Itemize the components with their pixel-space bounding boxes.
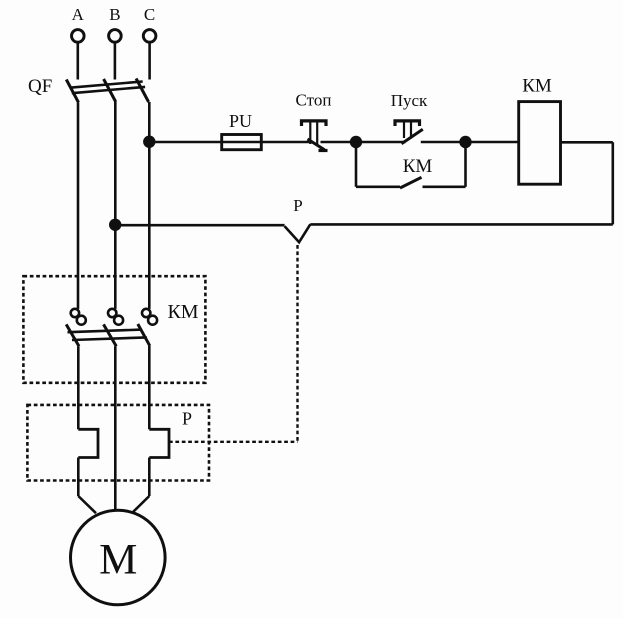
- contactor KM pole B blade: [104, 324, 117, 346]
- wire control line from C to stop button: [149, 141, 310, 144]
- svg-text:Стоп: Стоп: [296, 91, 332, 110]
- wire phase A KM contact to heater: [77, 346, 80, 429]
- wire aux branch bottom left: [356, 186, 400, 189]
- wire junction to start button: [356, 141, 406, 144]
- wire phase A heater to motor: [77, 458, 80, 497]
- wire aux branch bottom right: [423, 186, 466, 189]
- wire aux branch right rise: [464, 142, 467, 187]
- wire phase A terminal to QF: [77, 42, 80, 79]
- wire phase C slant to motor: [132, 496, 150, 513]
- pushbutton Start NO blade: [402, 129, 423, 144]
- contactor KM linkage bar top: [68, 330, 142, 333]
- wire phase C heater to motor: [148, 458, 151, 497]
- dashed mechanical link horizontal: [169, 441, 298, 443]
- wire phase B QF to KM contact: [114, 102, 117, 309]
- junction node after start: [459, 136, 471, 148]
- wire phase B terminal to QF: [114, 42, 117, 79]
- wire phase A slant to motor: [78, 496, 96, 513]
- svg-text:М: М: [99, 537, 137, 584]
- pushbutton Stop actuator cap: [302, 121, 327, 126]
- fuse PU: [222, 135, 262, 150]
- contactor KM linkage bar bottom: [72, 337, 147, 340]
- svg-text:C: C: [144, 5, 155, 24]
- wire phase C terminal to QF: [148, 42, 151, 79]
- svg-text:P: P: [182, 408, 192, 428]
- wire return line right segment: [310, 223, 613, 226]
- contactor KM pole C blade: [138, 324, 150, 346]
- contactor KM pole B fixed contact hook: [108, 309, 116, 317]
- svg-text:PU: PU: [229, 111, 252, 131]
- junction node on phase B: [109, 219, 121, 231]
- pushbutton Start actuator stem: [403, 122, 405, 138]
- contactor KM pole C fixed contact hook: [142, 309, 150, 317]
- breaker QF pole C blade: [136, 79, 149, 103]
- junction node on phase C: [143, 136, 155, 148]
- dashed mechanical link vertical: [296, 245, 298, 442]
- svg-text:QF: QF: [28, 76, 52, 97]
- pushbutton Stop actuator stem: [309, 122, 311, 144]
- contactor KM pole A fixed contact hook: [71, 309, 79, 317]
- wire phase A QF to KM contact: [77, 103, 80, 309]
- contactor KM pole A blade: [66, 324, 79, 346]
- svg-text:B: B: [109, 5, 120, 24]
- wire phase C QF to KM contact: [148, 102, 151, 309]
- svg-text:P: P: [293, 196, 302, 215]
- wire phase C KM contact to heater: [148, 346, 151, 430]
- heater element phase C: [149, 429, 169, 457]
- thermal contact P notch: [285, 224, 311, 242]
- wire phase B KM contact to motor: [114, 346, 117, 511]
- wire right rail down: [611, 142, 614, 224]
- wire start button to junction: [421, 141, 466, 144]
- junction node after stop: [350, 136, 362, 148]
- thermal relay P dashed box: [27, 405, 209, 481]
- pushbutton Start actuator cap: [395, 121, 420, 126]
- motor M circle: [71, 510, 166, 605]
- terminal B: [109, 30, 122, 43]
- wire aux branch left drop: [355, 142, 358, 187]
- svg-text:Пуск: Пуск: [391, 91, 428, 110]
- svg-text:КМ: КМ: [167, 301, 198, 323]
- svg-text:КМ: КМ: [403, 156, 433, 177]
- wire stop button to junction: [321, 141, 357, 144]
- coil KM: [519, 102, 561, 185]
- wire junction to coil: [466, 141, 519, 144]
- svg-text:A: A: [72, 5, 85, 24]
- pushbutton Stop NC blade: [308, 139, 325, 150]
- wire coil to right rail: [561, 141, 613, 144]
- wire return line left segment: [115, 224, 284, 227]
- breaker QF linkage bar top: [70, 82, 143, 88]
- breaker QF linkage bar bottom: [72, 87, 145, 93]
- terminal A: [72, 30, 85, 43]
- contactor KM dashed box: [23, 276, 205, 383]
- heater element phase A: [78, 429, 98, 457]
- svg-text:КМ: КМ: [522, 76, 552, 97]
- breaker QF pole B blade: [104, 79, 116, 102]
- auxiliary contact KM blade: [400, 177, 422, 188]
- breaker QF pole A blade: [66, 80, 78, 103]
- terminal C: [143, 30, 156, 43]
